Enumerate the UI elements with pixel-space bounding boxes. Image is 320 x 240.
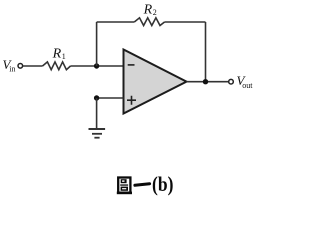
ground <box>89 128 106 130</box>
svg-text:in: in <box>9 65 15 74</box>
node B junction dot at plus input <box>94 95 99 100</box>
svg-text:out: out <box>242 81 253 90</box>
caption figure glyph (CJK drawn) <box>117 178 132 193</box>
node Vout terminal <box>229 79 234 84</box>
wire R1 to op-amp minus input <box>71 65 124 67</box>
wire plus input <box>97 97 124 99</box>
wire to ground <box>96 98 98 129</box>
resistor R2 <box>134 18 164 26</box>
resistor R1 <box>43 62 71 70</box>
plus sign non-inverting input <box>127 96 136 105</box>
wire feedback top left segment <box>97 21 135 23</box>
svg-text:(b): (b) <box>152 172 173 196</box>
svg-text:R: R <box>52 47 62 62</box>
op-amp U1 <box>124 50 187 114</box>
node Vin terminal <box>18 64 23 69</box>
node A junction dot at inverting input <box>94 63 99 68</box>
wire feedback top right segment <box>165 21 206 23</box>
wire feedback left vertical <box>96 22 98 66</box>
svg-text:R: R <box>143 3 153 18</box>
caption dash glyph <box>135 184 150 186</box>
svg-text:2: 2 <box>153 8 157 17</box>
node C junction dot at output <box>203 79 208 84</box>
wire feedback right vertical <box>205 22 207 82</box>
wire output <box>187 81 229 83</box>
svg-text:1: 1 <box>62 52 66 61</box>
wire Vin to R1 <box>23 65 43 67</box>
minus sign inverting input <box>128 64 135 66</box>
